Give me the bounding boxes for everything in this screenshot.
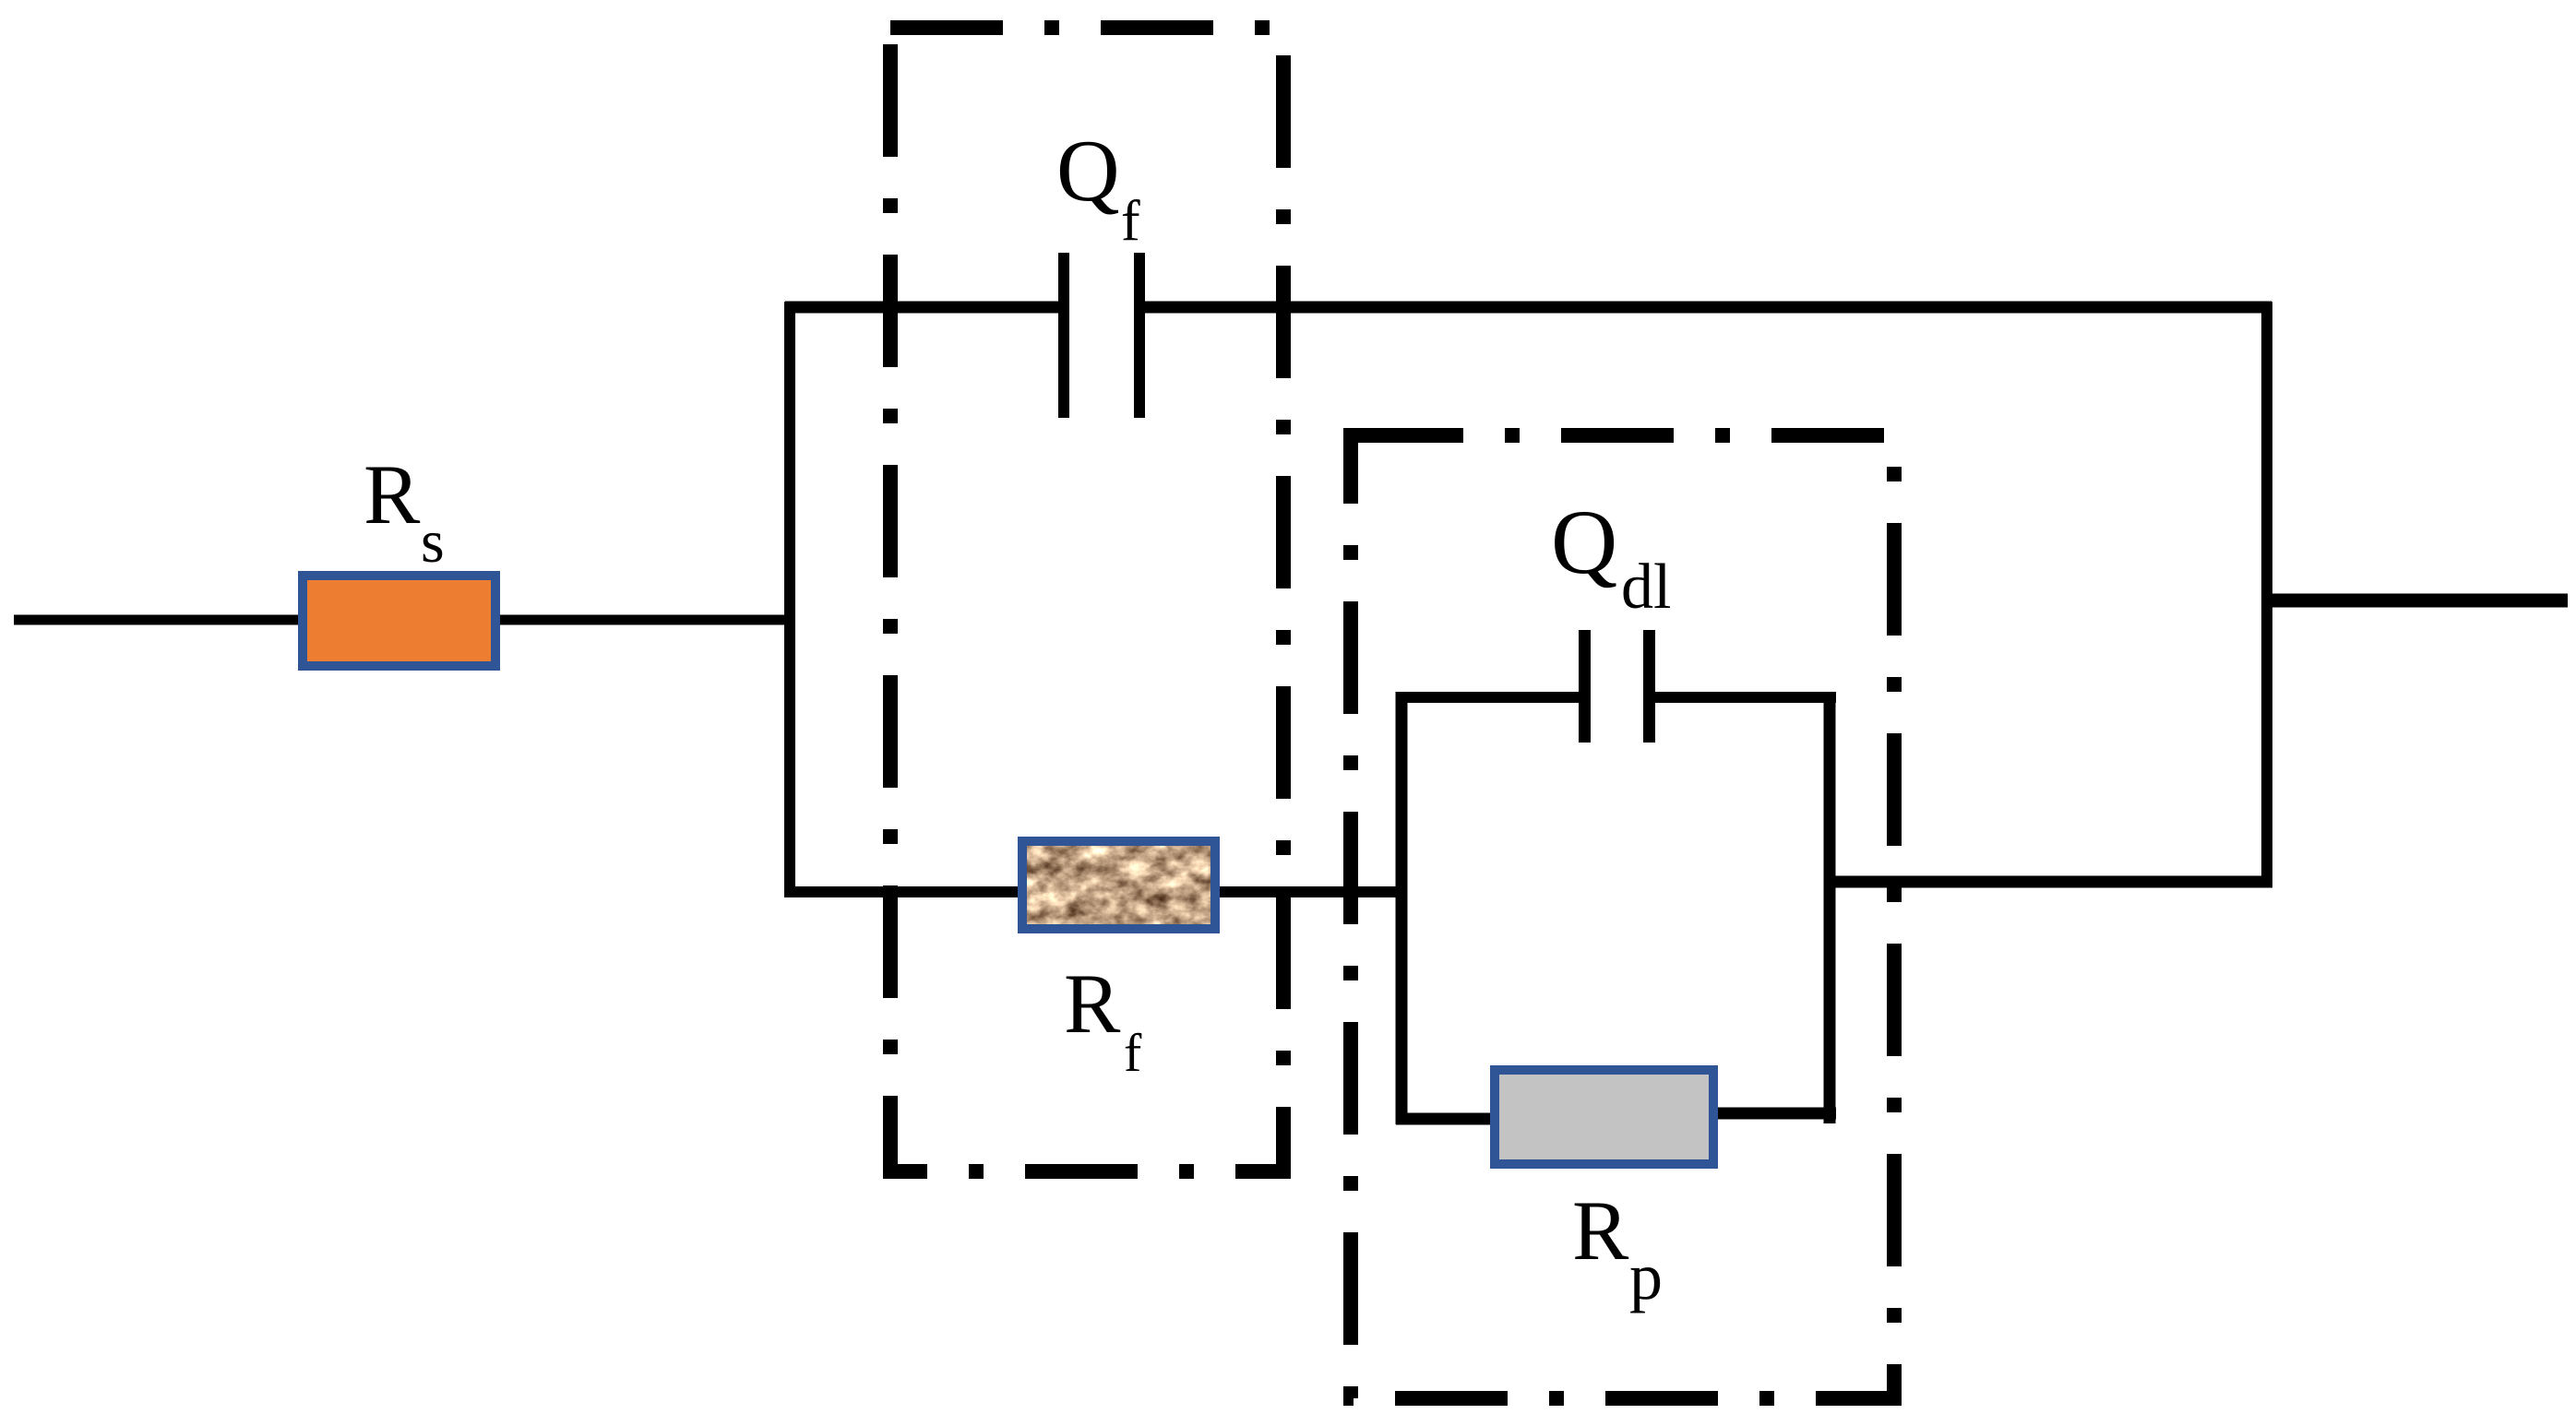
svg-text:R: R xyxy=(364,447,421,541)
svg-text:s: s xyxy=(421,508,445,576)
svg-text:Q: Q xyxy=(1551,491,1617,593)
svg-text:R: R xyxy=(1572,1183,1629,1277)
svg-text:Q: Q xyxy=(1056,122,1120,220)
svg-text:f: f xyxy=(1124,1023,1142,1083)
svg-text:p: p xyxy=(1629,1240,1663,1313)
svg-text:R: R xyxy=(1064,957,1121,1051)
svg-text:dl: dl xyxy=(1621,552,1671,623)
svg-text:f: f xyxy=(1121,190,1140,253)
